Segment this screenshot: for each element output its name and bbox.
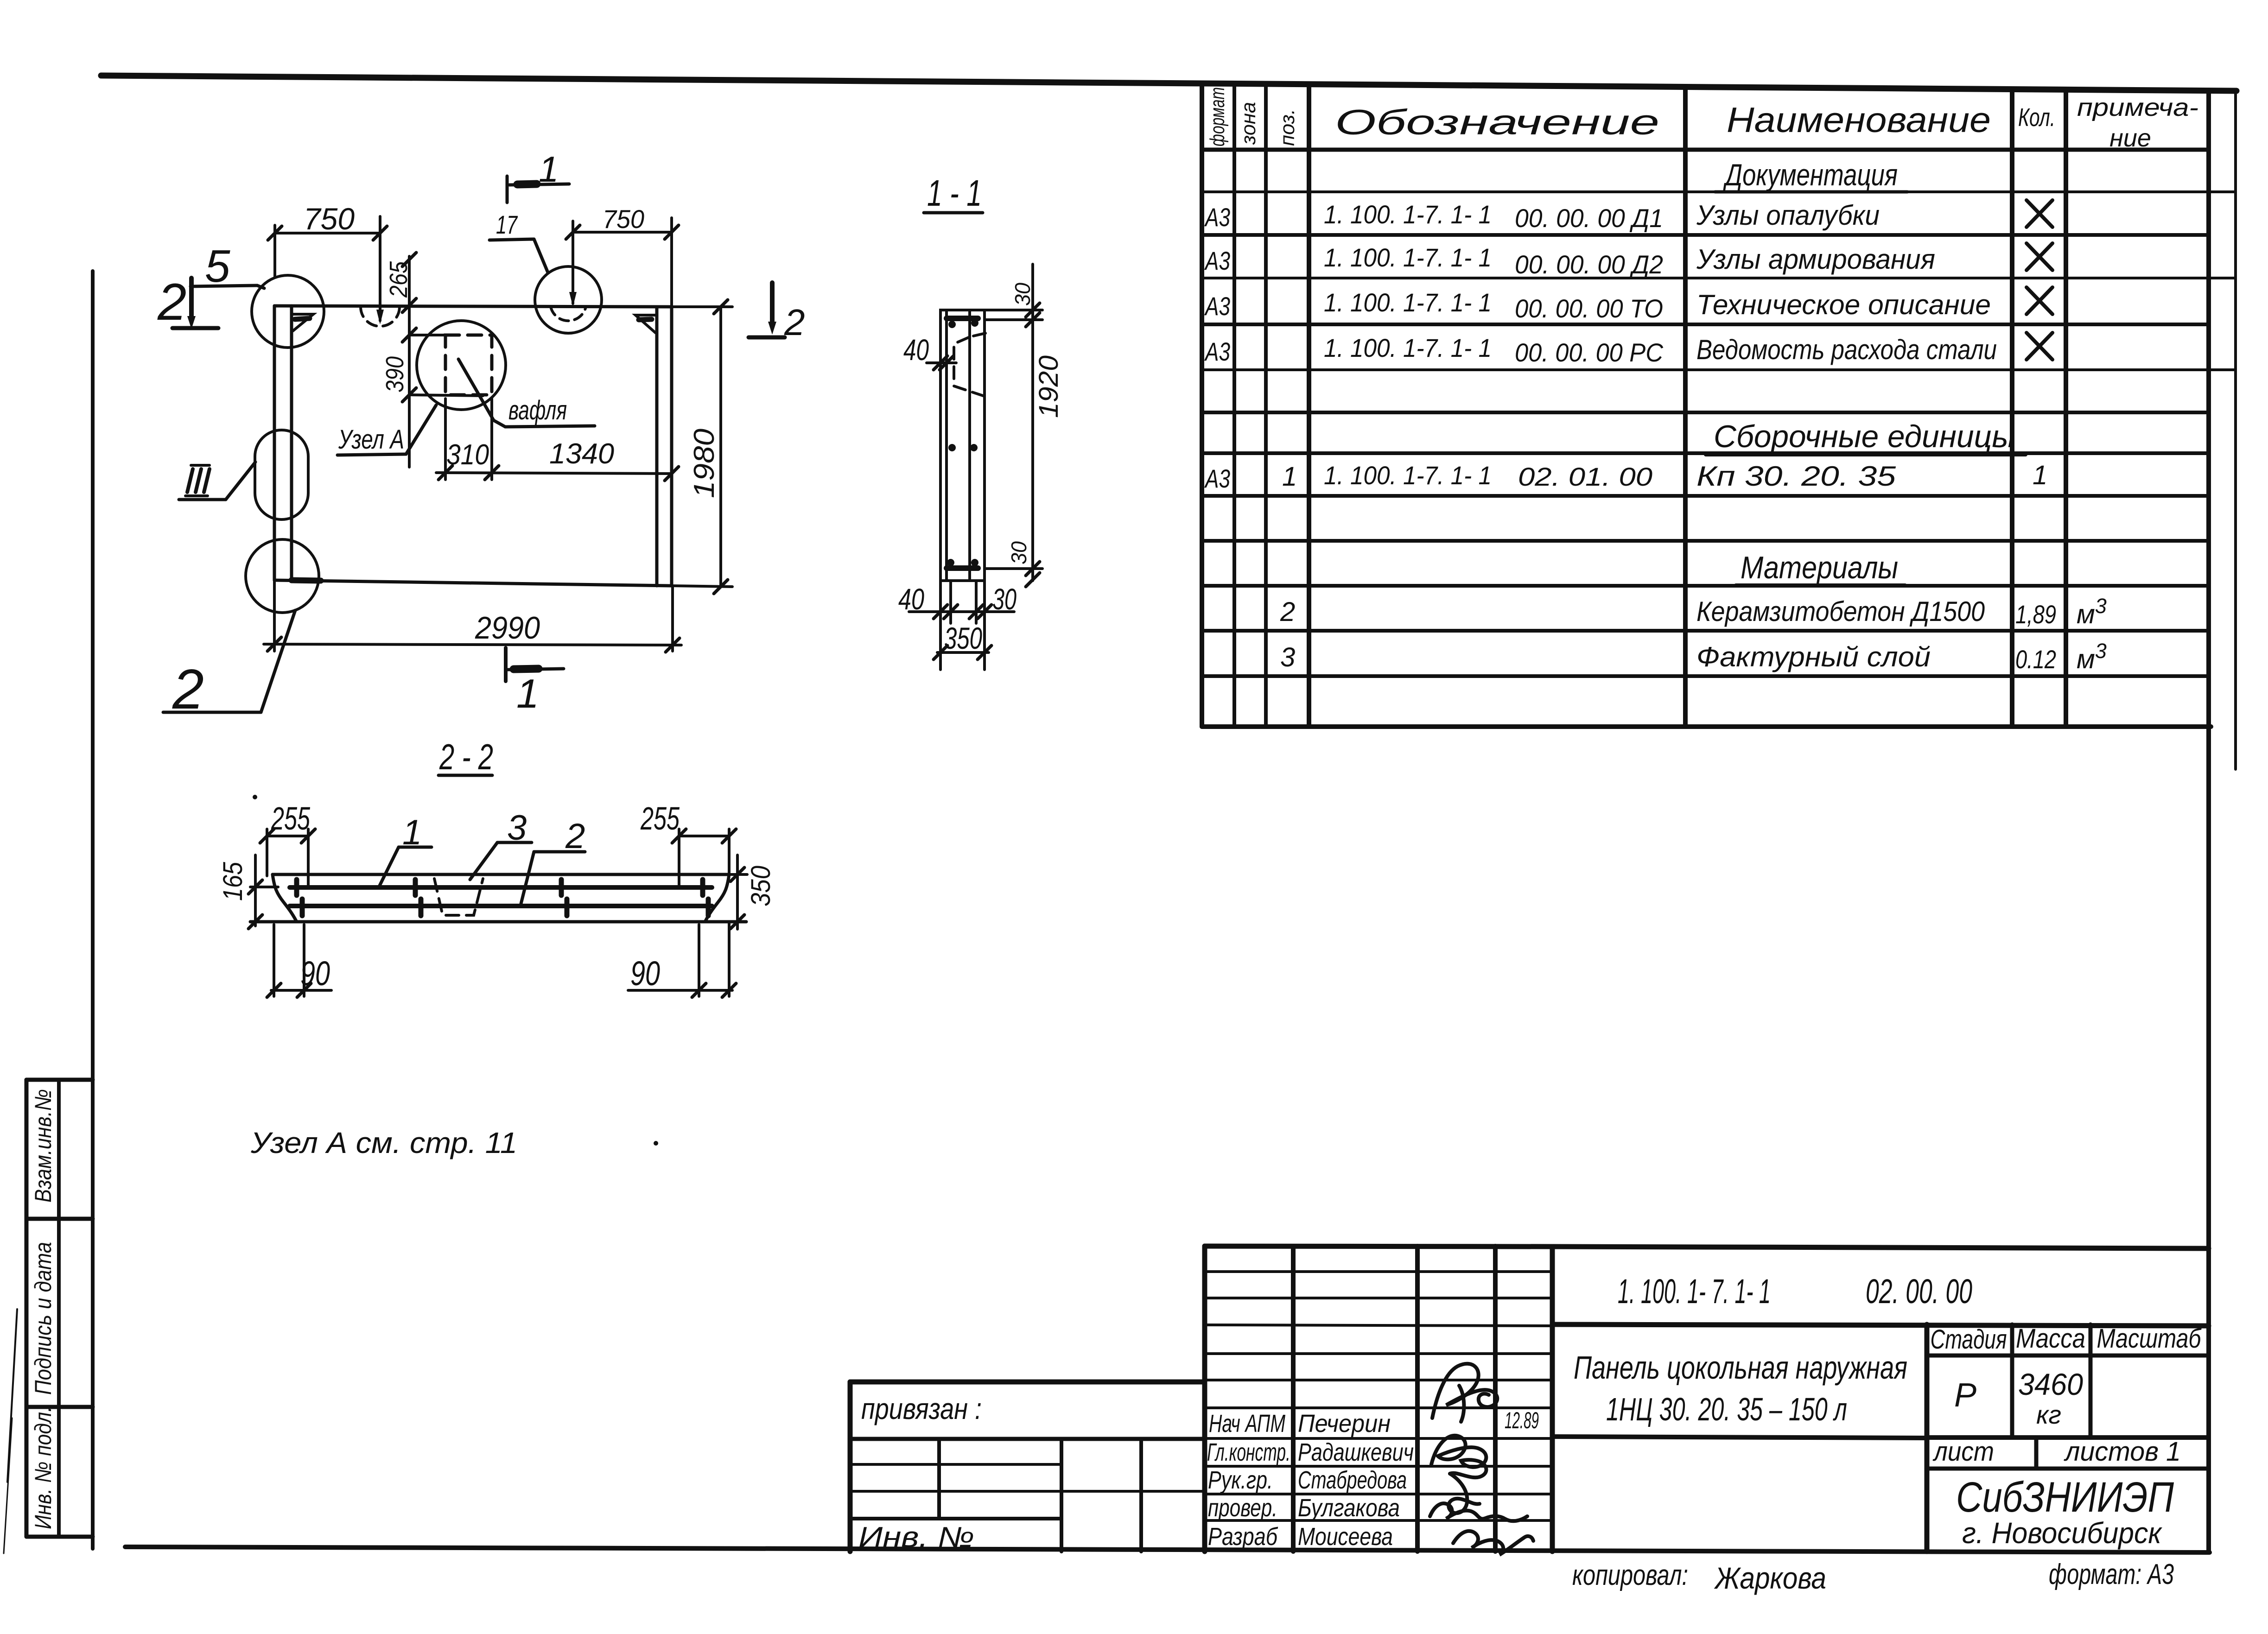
svg-text:1: 1 bbox=[2033, 460, 2047, 490]
panel outline bottom edge bbox=[274, 580, 672, 586]
section mark 2 right bbox=[749, 283, 785, 337]
table bottom line y1568 bbox=[1202, 724, 2211, 729]
svg-text:12.89: 12.89 bbox=[1505, 1407, 1539, 1433]
svg-text:Наименование: Наименование bbox=[1727, 101, 1991, 140]
stamp divider x127 bbox=[57, 1080, 61, 1537]
svg-text:копировал:: копировал: bbox=[1572, 1559, 1688, 1591]
divider title/stadia x4157 bbox=[1925, 1324, 1930, 1552]
svg-text:2: 2 bbox=[157, 273, 186, 331]
stamp row y2630 bbox=[26, 1217, 93, 1221]
svg-text:90: 90 bbox=[300, 954, 330, 993]
dashed lifting pocket top edge bbox=[361, 307, 400, 326]
s22 bottom edge bbox=[250, 920, 746, 924]
s22 stirrup marks bbox=[297, 880, 708, 916]
svg-text:зона: зона bbox=[1237, 102, 1260, 145]
svg-text:1: 1 bbox=[539, 149, 559, 190]
s22 dim 90 left bbox=[267, 925, 331, 997]
svg-text:255: 255 bbox=[271, 800, 310, 836]
svg-text:А3: А3 bbox=[1204, 291, 1230, 321]
svg-text:350: 350 bbox=[746, 866, 776, 906]
s11 dim 30 bottom bbox=[985, 562, 1042, 587]
stamp top y2330 bbox=[26, 1078, 93, 1082]
svg-text:ние: ние bbox=[2109, 124, 2151, 152]
svg-text:Подпись и дата: Подпись и дата bbox=[30, 1242, 56, 1395]
svg-text:Ведомость расхода стали: Ведомость расхода стали bbox=[1696, 334, 1997, 365]
svg-text:г. Новосибирск: г. Новосибирск bbox=[1962, 1516, 2163, 1550]
svg-text:40: 40 bbox=[898, 583, 924, 616]
dim 750 left bbox=[268, 216, 387, 324]
svg-text:Взам.инв.№: Взам.инв.№ bbox=[30, 1089, 56, 1203]
sig col x2790 bbox=[1291, 1246, 1296, 1552]
sig table top bbox=[1205, 1246, 1552, 1247]
svg-text:02. 00. 00: 02. 00. 00 bbox=[1866, 1272, 1972, 1311]
svg-text:Инв. №: Инв. № bbox=[858, 1521, 974, 1553]
svg-text:0.12: 0.12 bbox=[2015, 645, 2056, 674]
svg-text:1. 100. 1-7. 1- 1: 1. 100. 1-7. 1- 1 bbox=[1324, 333, 1492, 362]
designation row bottom bbox=[1552, 1324, 2209, 1326]
uzel A circle bbox=[417, 321, 506, 410]
svg-text:265: 265 bbox=[385, 261, 413, 298]
stamp bottom y3316 bbox=[26, 1535, 93, 1539]
table column line x2824 bbox=[1307, 84, 1311, 727]
svg-text:750: 750 bbox=[304, 202, 355, 236]
svg-text:1340: 1340 bbox=[549, 438, 614, 470]
svg-text:3: 3 bbox=[1280, 642, 1295, 672]
svg-text:Стадия: Стадия bbox=[1931, 1324, 2007, 1355]
svg-text:2: 2 bbox=[565, 817, 585, 856]
stadia header bottom y2925 bbox=[1927, 1354, 2209, 1358]
svg-text:Панель цокольная наружная: Панель цокольная наружная bbox=[1574, 1349, 1907, 1386]
s22 top rebar bbox=[290, 885, 712, 890]
sheet bottom border bbox=[125, 1547, 2210, 1552]
priv row y3277 bbox=[850, 1517, 1061, 1520]
lifting anchor right bbox=[635, 315, 655, 333]
s22 dim 165 bbox=[248, 855, 278, 929]
svg-text:формат: А3: формат: А3 bbox=[2049, 1558, 2174, 1590]
svg-text:40: 40 bbox=[903, 333, 929, 367]
svg-text:А3: А3 bbox=[1204, 203, 1230, 232]
svg-text:00. 00. 00 Д2: 00. 00. 00 Д2 bbox=[1515, 250, 1663, 279]
svg-text:А3: А3 bbox=[1204, 246, 1230, 275]
section mark 2 left bbox=[172, 278, 218, 329]
dim 390 bbox=[402, 328, 483, 402]
svg-text:формат: формат bbox=[1206, 87, 1229, 146]
svg-text:Стабредова: Стабредова bbox=[1298, 1466, 1407, 1494]
svg-text:Гл.констр.: Гл.констр. bbox=[1207, 1438, 1290, 1466]
svg-text:Масштаб: Масштаб bbox=[2097, 1324, 2202, 1354]
node circle 5 bbox=[252, 275, 324, 348]
table row line y1361 bbox=[1202, 629, 2209, 633]
svg-text:1980: 1980 bbox=[688, 429, 720, 498]
svg-text:2: 2 bbox=[1280, 597, 1295, 627]
panel outline top edge bbox=[274, 306, 672, 307]
svg-text:Кол.: Кол. bbox=[2018, 103, 2055, 132]
table row line y978 bbox=[1202, 451, 2209, 455]
sheet left border bbox=[91, 271, 95, 1549]
sig row y3104 bbox=[1205, 1437, 1552, 1440]
sig row y3281 bbox=[1205, 1519, 1552, 1522]
svg-text:1. 100. 1- 7. 1- 1: 1. 100. 1- 7. 1- 1 bbox=[1618, 1272, 1771, 1311]
svg-text:350: 350 bbox=[944, 621, 982, 655]
svg-text:00. 00. 00 Д1: 00. 00. 00 Д1 bbox=[1515, 203, 1663, 233]
sig col x3226 bbox=[1493, 1246, 1498, 1552]
svg-text:30: 30 bbox=[1010, 283, 1035, 306]
dim 2990 bbox=[264, 580, 681, 652]
svg-text:м3: м3 bbox=[2077, 639, 2107, 674]
s11 outline bbox=[940, 310, 985, 581]
svg-text:Р: Р bbox=[1954, 1377, 1976, 1414]
s22 dim 255 right bbox=[672, 829, 736, 886]
sig row y2859 bbox=[1205, 1325, 1552, 1326]
svg-text:310: 310 bbox=[446, 439, 489, 471]
s22 right end profile bbox=[705, 874, 729, 922]
table row line y1167 bbox=[1202, 539, 2209, 543]
svg-text:Жаркова: Жаркова bbox=[1714, 1561, 1826, 1595]
svg-text:165: 165 bbox=[218, 861, 248, 901]
s11 inner line x2092 bbox=[968, 310, 971, 581]
svg-text:90: 90 bbox=[630, 954, 660, 993]
sig row y3224 bbox=[1205, 1493, 1552, 1495]
s11 dim 30 top bbox=[985, 264, 1042, 581]
table row line y414 bbox=[1202, 190, 2236, 193]
table row line y323 bbox=[1202, 148, 2209, 152]
bottom notes bbox=[1572, 1558, 2174, 1595]
stray dot below plan bbox=[253, 795, 257, 799]
title cell divider y3100 bbox=[1552, 1437, 1927, 1438]
s22 dim 255 left bbox=[260, 829, 315, 886]
label III bbox=[179, 462, 255, 500]
list row top y3102 bbox=[1927, 1435, 2209, 1440]
svg-text:Кп 30. 20. 35: Кп 30. 20. 35 bbox=[1696, 461, 1896, 492]
svg-text:Документация: Документация bbox=[1722, 158, 1898, 192]
svg-text:1 - 1: 1 - 1 bbox=[927, 172, 982, 214]
svg-text:Рук.гр.: Рук.гр. bbox=[1208, 1466, 1273, 1494]
node circle 2 bbox=[246, 539, 319, 613]
svg-text:255: 255 bbox=[640, 800, 680, 836]
stadia/massa divider x4341 bbox=[2010, 1324, 2014, 1438]
svg-text:1920: 1920 bbox=[1034, 355, 1064, 418]
svg-text:поз.: поз. bbox=[1276, 109, 1299, 146]
priv row y3105 bbox=[850, 1437, 1205, 1441]
table row line y798 bbox=[1202, 368, 2236, 371]
sig row y3038 bbox=[1205, 1406, 1552, 1409]
svg-text:Моисеева: Моисеева bbox=[1298, 1523, 1393, 1551]
svg-text:17: 17 bbox=[496, 210, 518, 239]
sig row y2801 bbox=[1205, 1297, 1552, 1299]
svg-text:А3: А3 bbox=[1204, 464, 1230, 493]
svg-text:Масса: Масса bbox=[2016, 1324, 2085, 1354]
svg-text:2: 2 bbox=[784, 302, 805, 343]
table column line x2593 bbox=[1200, 83, 1204, 727]
svg-text:Булгакова: Булгакова bbox=[1298, 1494, 1400, 1522]
svg-text:1НЦ 30. 20. 35 – 150 л: 1НЦ 30. 20. 35 – 150 л bbox=[1606, 1391, 1847, 1427]
svg-text:00. 00. 00 ТО: 00. 00. 00 ТО bbox=[1515, 294, 1663, 323]
dim 310 1340 bbox=[436, 399, 679, 481]
sig table left border bbox=[1202, 1246, 1207, 1552]
s11 inner line x2042 bbox=[945, 310, 948, 581]
svg-text:00. 00. 00 РС: 00. 00. 00 РС bbox=[1515, 338, 1664, 367]
priv divider x2462 bbox=[1139, 1439, 1143, 1552]
svg-text:лист: лист bbox=[1932, 1437, 1994, 1467]
stamp row y3036 bbox=[26, 1405, 93, 1409]
panel outline left edge bbox=[273, 306, 276, 580]
table column line x4341 bbox=[2010, 89, 2014, 727]
svg-text:Узел А см. стр. 11: Узел А см. стр. 11 bbox=[250, 1126, 517, 1159]
section mark 1 top bbox=[507, 176, 569, 203]
waffle dashed square bbox=[445, 335, 492, 395]
s22 dim 90 right bbox=[628, 923, 736, 997]
svg-text:1,89: 1,89 bbox=[2015, 600, 2056, 629]
svg-text:примеча-: примеча- bbox=[2077, 94, 2198, 121]
svg-text:Узел А: Узел А bbox=[338, 424, 404, 455]
svg-text:провер.: провер. bbox=[1208, 1494, 1277, 1522]
weld obround III bbox=[255, 430, 308, 519]
svg-text:2 - 2: 2 - 2 bbox=[439, 736, 493, 777]
priv left bbox=[848, 1382, 853, 1552]
s11 bottom dims bbox=[909, 581, 1014, 670]
svg-text:3460: 3460 bbox=[2018, 1367, 2083, 1401]
table column line x3636 bbox=[1683, 87, 1688, 727]
stray dot right of 2-2 bbox=[654, 1141, 658, 1146]
s22 bottom rebar bbox=[290, 904, 712, 908]
title block top line bbox=[1552, 1247, 2209, 1248]
spec table body texts bbox=[1204, 158, 2107, 674]
svg-text:кг: кг bbox=[2036, 1400, 2061, 1429]
content right border x4765 bbox=[2206, 91, 2211, 1552]
sig row y2921 bbox=[1205, 1352, 1552, 1355]
svg-text:привязан :: привязан : bbox=[861, 1392, 982, 1425]
table row line y507 bbox=[1202, 233, 2209, 237]
s22 dim 350 bbox=[729, 855, 747, 929]
svg-text:листов 1: листов 1 bbox=[2064, 1437, 2181, 1467]
svg-text:1. 100. 1-7. 1- 1: 1. 100. 1-7. 1- 1 bbox=[1324, 200, 1492, 229]
title block left border bbox=[1550, 1247, 1555, 1552]
svg-text:Узлы армирования: Узлы армирования bbox=[1696, 244, 1935, 275]
svg-text:2990: 2990 bbox=[475, 610, 540, 646]
s11 bottom rebar bar bbox=[947, 565, 978, 571]
table row line y1070 bbox=[1202, 494, 2209, 498]
right rib inner line bbox=[655, 307, 659, 586]
table column line x4457 bbox=[2064, 90, 2068, 727]
svg-text:02. 01. 00: 02. 01. 00 bbox=[1518, 462, 1652, 491]
svg-text:1. 100. 1-7. 1- 1: 1. 100. 1-7. 1- 1 bbox=[1324, 288, 1492, 317]
stamp outer left bbox=[25, 1080, 29, 1537]
section mark 1 bottom bbox=[506, 648, 564, 681]
priv row y3218 bbox=[850, 1490, 1205, 1493]
dim 750 right bbox=[566, 218, 679, 307]
svg-text:Обозначение: Обозначение bbox=[1335, 103, 1659, 142]
sig col x3058 bbox=[1415, 1246, 1420, 1552]
svg-text:А3: А3 bbox=[1204, 337, 1230, 366]
priv divider x2290 bbox=[1060, 1439, 1063, 1552]
svg-text:Сборочные единицы: Сборочные единицы bbox=[1714, 419, 2015, 454]
svg-text:Материалы: Материалы bbox=[1741, 550, 1898, 585]
dim 1980 bbox=[672, 300, 732, 594]
dim 265 bbox=[402, 253, 416, 467]
svg-text:5: 5 bbox=[205, 241, 230, 291]
priv row y3160 bbox=[850, 1463, 1061, 1466]
scan streaks left edge bbox=[4, 1309, 17, 1553]
svg-text:750: 750 bbox=[603, 204, 644, 234]
svg-text:м3: м3 bbox=[2077, 594, 2107, 629]
spec table header texts bbox=[1206, 87, 2198, 152]
left rib inner line bbox=[290, 306, 293, 579]
table column line x2731 bbox=[1264, 84, 1268, 727]
svg-text:Разраб: Разраб bbox=[1208, 1523, 1278, 1551]
sig row y2744 bbox=[1205, 1270, 1552, 1273]
signatures squiggles bbox=[1430, 1364, 1533, 1555]
svg-text:Керамзитобетон Д1500: Керамзитобетон Д1500 bbox=[1696, 596, 1985, 627]
massa/masshtab divider x4510 bbox=[2089, 1324, 2093, 1438]
table row line y1459 bbox=[1202, 674, 2209, 678]
list row bottom y3169 bbox=[1927, 1467, 2209, 1471]
table row line y1264 bbox=[1202, 584, 2209, 588]
X marks in Kol column bbox=[2027, 200, 2052, 360]
svg-text:390: 390 bbox=[381, 356, 409, 393]
svg-text:Печерин: Печерин bbox=[1298, 1410, 1391, 1438]
s11 dashed pocket bbox=[954, 337, 985, 396]
table row line y600 bbox=[1202, 277, 2236, 279]
table column line x2663 bbox=[1232, 84, 1236, 727]
s22 top edge bbox=[273, 873, 729, 876]
svg-text:вафля: вафля bbox=[508, 395, 567, 425]
s11 rebar dots bbox=[947, 319, 978, 566]
bottom rib inner corner line bbox=[292, 580, 321, 581]
svg-text:Нач АПМ: Нач АПМ bbox=[1209, 1410, 1285, 1438]
svg-text:Фактурный слой: Фактурный слой bbox=[1696, 641, 1931, 672]
svg-text:Узлы опалубки: Узлы опалубки bbox=[1696, 200, 1880, 231]
sig row y3164 bbox=[1205, 1465, 1552, 1468]
s11 dim 40 top bbox=[927, 356, 956, 370]
svg-text:Инв. № подл.: Инв. № подл. bbox=[30, 1406, 56, 1529]
node circle 17 bbox=[535, 266, 602, 333]
panel outline right edge bbox=[670, 307, 673, 586]
table row line y700 bbox=[1202, 323, 2209, 326]
svg-text:1: 1 bbox=[516, 671, 539, 716]
svg-text:СибЗНИИЭП: СибЗНИИЭП bbox=[1956, 1474, 2174, 1521]
svg-text:30: 30 bbox=[1007, 541, 1031, 564]
node 17 dashed pocket bbox=[551, 307, 586, 321]
svg-text:1: 1 bbox=[1282, 462, 1297, 492]
svg-text:1. 100. 1-7. 1- 1: 1. 100. 1-7. 1- 1 bbox=[1324, 461, 1492, 490]
svg-text:1. 100. 1-7. 1- 1: 1. 100. 1-7. 1- 1 bbox=[1324, 243, 1492, 272]
svg-text:Техническое описание: Техническое описание bbox=[1696, 289, 1991, 320]
table row line y890 bbox=[1202, 411, 2209, 414]
s22 dashed pocket bbox=[434, 879, 483, 915]
s11 top rebar bar bbox=[947, 316, 978, 321]
svg-text:Радашкевич: Радашкевич bbox=[1298, 1438, 1414, 1466]
priv top bbox=[850, 1380, 1205, 1385]
list/listov divider x4393 bbox=[2034, 1438, 2039, 1469]
priv divider x2026 bbox=[937, 1439, 941, 1519]
sheet top border bbox=[101, 76, 2236, 91]
sheet right border partial bbox=[2234, 93, 2237, 769]
svg-text:30: 30 bbox=[992, 583, 1016, 616]
sig row y2978 bbox=[1205, 1379, 1552, 1381]
s22 left end profile bbox=[273, 874, 297, 922]
lifting anchor left bbox=[293, 314, 313, 331]
